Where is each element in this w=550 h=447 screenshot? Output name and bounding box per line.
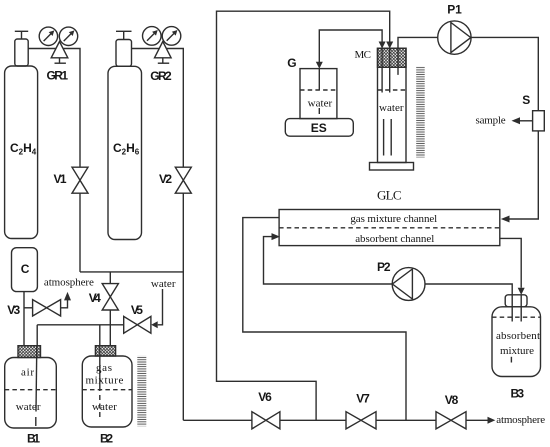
svg-text:water: water [151, 278, 176, 290]
svg-text:water: water [308, 97, 333, 109]
wire water manifold [37, 324, 124, 326]
svg-text:air: air [21, 367, 34, 379]
wire V1 to header [79, 193, 81, 272]
wire drop to B1 dip tube [36, 325, 38, 346]
svg-text:B3: B3 [511, 386, 525, 400]
valve V6 [252, 412, 280, 429]
svg-text:MC: MC [355, 49, 372, 61]
wire stub to V3 [24, 307, 33, 309]
svg-text:atmosphere: atmosphere [496, 414, 545, 426]
svg-text:V2: V2 [159, 172, 172, 186]
svg-text:C2H6: C2H6 [113, 141, 140, 157]
arrow to atmosphere [488, 417, 496, 424]
svg-text:mixture: mixture [86, 374, 124, 386]
label water in G (with mask) [305, 95, 334, 108]
wire long loop to MC (line A) [217, 11, 390, 420]
svg-text:V5: V5 [131, 303, 143, 317]
ruler beside MC [416, 66, 425, 157]
svg-text:P2: P2 [377, 260, 391, 274]
valve V4 [102, 284, 118, 310]
stand ES [285, 119, 353, 137]
svg-text:V6: V6 [258, 390, 272, 404]
bottle B2 cap [95, 346, 115, 356]
wire B3 dip tube [511, 295, 513, 322]
wire GLC gas outlet to bottom manifold [243, 218, 406, 421]
regulator GR2 [143, 27, 181, 64]
wire C to B1 cap [23, 292, 25, 346]
contactor GLC [279, 210, 500, 246]
arrow into B3 [518, 288, 525, 295]
arrow into MC right [386, 42, 393, 49]
regulator GR1 [39, 27, 77, 63]
wire B1 dip tube [35, 346, 38, 412]
svg-text:mixture: mixture [500, 345, 534, 357]
bottle B3 [492, 307, 541, 377]
wire drop to B2 dip tube [99, 325, 101, 346]
svg-text:V1: V1 [54, 172, 67, 186]
wire absorbent return to B3 [500, 238, 521, 287]
column MC base [370, 163, 414, 171]
wire P1 to S [471, 37, 538, 110]
svg-text:absorbent: absorbent [496, 330, 540, 342]
wire sample arrow [520, 120, 533, 122]
svg-text:GR1: GR1 [47, 69, 69, 83]
arrow up atmosphere [64, 292, 71, 301]
svg-text:atmosphere: atmosphere [44, 277, 94, 289]
cylinder C2H4 tank [5, 31, 38, 238]
column MC [378, 48, 407, 162]
svg-text:GLC: GLC [377, 188, 402, 203]
valve V7 [346, 412, 376, 429]
wire P2 suction from B3 [425, 284, 512, 295]
wire tank1 to GR1 [28, 48, 56, 50]
wire absorbent inlet [264, 237, 393, 284]
wire bottom manifold [183, 419, 252, 421]
column MC tubes [381, 48, 383, 92]
valve V2 [175, 167, 191, 193]
svg-text:C2H4: C2H4 [10, 141, 37, 157]
svg-text:water: water [16, 401, 41, 413]
wire B2 dip tube [99, 346, 101, 391]
wire tank2 to GR2 [132, 48, 160, 50]
wire G to MC (line B) [319, 30, 382, 62]
valve V3 [33, 300, 61, 316]
arrow into MC left [379, 42, 386, 49]
svg-text:C: C [21, 262, 30, 276]
svg-text:G: G [287, 56, 296, 70]
arrow into absorbent channel [272, 233, 281, 240]
valve V8 [436, 412, 466, 429]
bottle B1 cap [18, 346, 41, 358]
svg-text:B1: B1 [27, 431, 40, 445]
cylinder C2H6 tank [108, 31, 142, 239]
bottle B3 cap [505, 295, 527, 307]
svg-text:P1: P1 [447, 3, 462, 17]
svg-text:V4: V4 [89, 291, 101, 305]
pump P2 [392, 268, 425, 301]
svg-text:V8: V8 [445, 393, 459, 407]
box C [12, 248, 38, 292]
svg-text:gas: gas [96, 362, 112, 374]
wire GR2 to V2 drop [167, 49, 184, 168]
wire gas header [80, 271, 183, 273]
wire S to GLC [510, 131, 539, 219]
svg-text:S: S [522, 93, 530, 107]
arrow into V5 [151, 321, 158, 328]
arrow into G [316, 62, 323, 69]
wire V2 down to bottom manifold [182, 193, 184, 420]
sample port S [533, 111, 545, 131]
bottle B2 [82, 356, 132, 427]
wire water inlet [158, 289, 163, 325]
wire header to V4 [109, 272, 111, 284]
ruler beside B2 [137, 356, 146, 427]
svg-text:B2: B2 [100, 431, 113, 445]
svg-text:absorbent channel: absorbent channel [355, 233, 434, 245]
valve V5 [124, 316, 151, 333]
svg-text:sample: sample [476, 114, 506, 126]
svg-text:water: water [379, 102, 404, 114]
valve V1 [72, 167, 88, 193]
wire V4 to B2 cap [109, 310, 111, 346]
wire V3 to vent [61, 300, 68, 308]
svg-text:V3: V3 [7, 303, 20, 317]
svg-text:V7: V7 [356, 392, 370, 406]
bottle B1 [5, 358, 57, 429]
wire P1 suction tube [398, 37, 438, 75]
pump P1 [438, 21, 471, 54]
svg-text:GR2: GR2 [150, 69, 172, 83]
svg-text:gas mixture channel: gas mixture channel [350, 213, 437, 225]
beaker G [300, 69, 337, 119]
wire GR1 to V1 drop [63, 49, 80, 168]
svg-text:ES: ES [311, 121, 327, 135]
svg-text:water: water [92, 401, 117, 413]
arrow into GLC gas channel [501, 216, 510, 223]
